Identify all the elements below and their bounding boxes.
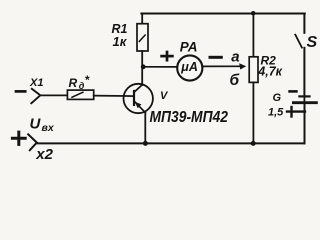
resistor Rd xyxy=(67,90,93,99)
svg-text:X1: X1 xyxy=(29,77,43,89)
label plus (input) xyxy=(12,132,25,144)
svg-text:S: S xyxy=(307,34,318,51)
wire meter to point a with arrow xyxy=(202,63,246,69)
svg-text:V: V xyxy=(160,90,169,102)
wire collector to node xyxy=(141,67,143,85)
resistor R2 xyxy=(249,13,258,143)
label minus (input) xyxy=(16,90,25,93)
terminal X1 xyxy=(31,89,67,104)
transistor V xyxy=(124,84,153,113)
label battery plus xyxy=(287,107,305,117)
label minus (meter polarity) xyxy=(210,56,221,59)
wire bottom rail xyxy=(37,142,305,144)
svg-text:U: U xyxy=(30,115,42,132)
resistor R1 xyxy=(137,14,148,67)
svg-text:1,5: 1,5 xyxy=(268,107,284,119)
node dot bottom rail (emitter) xyxy=(143,141,148,146)
op-amp: microammeter PA xyxy=(177,55,202,80)
label Rd* xyxy=(69,73,91,91)
svg-text:а: а xyxy=(231,49,239,66)
label PA xyxy=(180,39,198,74)
svg-text:б: б xyxy=(230,72,240,89)
svg-text:R: R xyxy=(69,76,78,90)
svg-text:PA: PA xyxy=(180,39,198,54)
svg-text:4,7к: 4,7к xyxy=(257,65,282,79)
svg-text:вх: вх xyxy=(42,122,55,134)
node A (R1 / meter / collector junction) xyxy=(141,64,146,69)
wire Rd to base xyxy=(94,95,134,98)
node dot bottom rail (R2 bottom) xyxy=(251,141,256,146)
label battery minus xyxy=(290,90,297,93)
wire emitter to bottom rail xyxy=(144,113,146,144)
svg-text:μA: μA xyxy=(180,60,198,74)
label Uvx xyxy=(30,115,55,134)
wire node to meter xyxy=(143,66,177,68)
label R2 value 4,7k xyxy=(257,54,282,79)
battery G 1.5V xyxy=(293,96,316,143)
wire top rail xyxy=(141,13,304,15)
switch S xyxy=(295,14,304,97)
label plus (meter polarity) xyxy=(162,52,173,60)
label R1 value 1k xyxy=(112,22,128,49)
node dot on top rail (R2 branch) xyxy=(251,11,256,16)
terminal X2 xyxy=(28,134,37,150)
svg-text:G: G xyxy=(273,92,282,104)
svg-text:1к: 1к xyxy=(113,34,128,49)
svg-text:х2: х2 xyxy=(35,146,53,163)
svg-text:*: * xyxy=(85,73,91,87)
svg-text:МП39-МП42: МП39-МП42 xyxy=(150,109,229,126)
